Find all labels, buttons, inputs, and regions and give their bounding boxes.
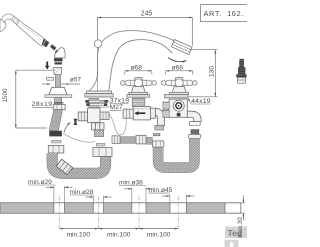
holder escutcheon xyxy=(49,87,67,95)
mid hose chain: nut xyxy=(112,136,120,144)
svg-text:ø68: ø68 xyxy=(131,65,143,72)
spout base flange xyxy=(87,91,112,94)
small stud xyxy=(74,119,76,125)
svg-text:130: 130 xyxy=(208,66,215,77)
U-hose right nut xyxy=(93,148,112,157)
spout shank below deck xyxy=(89,98,99,108)
ART box xyxy=(201,5,261,22)
spout tip xyxy=(171,40,192,55)
insert arrow xyxy=(45,61,50,69)
dimension max.30 xyxy=(225,196,245,221)
handshower hose below deck xyxy=(49,111,63,131)
valve 2 tail nipple xyxy=(191,130,199,135)
washer on U leg xyxy=(154,134,160,136)
bottom deck band xyxy=(0,203,241,213)
holder threaded column xyxy=(56,75,61,88)
valve 2 elbow xyxy=(187,111,201,121)
right edge cartridge xyxy=(236,59,246,83)
holder shank below deck xyxy=(55,97,62,104)
hose break slashes xyxy=(50,44,56,50)
dimension ø57 xyxy=(42,83,80,85)
spout below-deck body xyxy=(78,108,109,130)
hose ferrule below deck xyxy=(49,131,62,137)
washer xyxy=(52,140,62,143)
hand shower handle xyxy=(17,21,45,46)
dimension 245 xyxy=(98,18,193,47)
valve 1 elbow xyxy=(155,108,164,125)
svg-text:245: 245 xyxy=(141,10,153,17)
S-curve leader spout to valve1 xyxy=(110,115,127,135)
dimension 130 xyxy=(189,50,218,97)
corner fitting on U-hose xyxy=(56,159,73,175)
diverter dial xyxy=(173,100,184,111)
mid hose chain: hex xyxy=(136,135,146,144)
spout outlet circle xyxy=(94,40,102,48)
hole centerlines xyxy=(59,197,178,229)
diverter stud xyxy=(177,113,181,117)
valve 2 escutcheon xyxy=(170,92,189,94)
hose ferrule xyxy=(42,38,50,47)
flow arrow in valve1 body xyxy=(134,111,145,115)
hole edge extension lines xyxy=(54,186,186,203)
ribbed ring xyxy=(54,58,63,61)
S-curve leader hose to washer xyxy=(63,134,96,143)
left U-hose xyxy=(52,154,105,174)
holder side pin xyxy=(47,77,54,80)
valve 1 handle xyxy=(121,78,157,87)
min.100 dimensions xyxy=(59,228,178,230)
hand shower neck xyxy=(2,14,14,23)
svg-text:ø68: ø68 xyxy=(172,65,184,72)
valve 2 tail nut xyxy=(189,134,201,138)
shower holder cup xyxy=(54,67,62,74)
spout centerline xyxy=(97,40,99,91)
valve 1 skirt xyxy=(131,87,145,93)
hand shower head xyxy=(0,19,6,31)
svg-text:min.100: min.100 xyxy=(147,231,171,238)
svg-text:min.100: min.100 xyxy=(67,231,91,238)
valve 1 shank xyxy=(132,98,145,106)
hose end piece above holder xyxy=(55,48,66,58)
dimension 1500 xyxy=(16,70,56,128)
washer below spout xyxy=(96,143,105,146)
hand shower collar xyxy=(12,16,20,25)
valve 2 handle xyxy=(161,78,197,87)
compression nut on U leg xyxy=(152,141,163,147)
svg-text:1500: 1500 xyxy=(2,88,9,103)
valve 2 skirt xyxy=(172,87,186,93)
svg-text:min.100: min.100 xyxy=(107,231,131,238)
dimension ø68 valve1 xyxy=(125,71,152,75)
swivel arrow xyxy=(168,58,187,62)
holder nut xyxy=(53,105,65,110)
valve 1 escutcheon xyxy=(129,92,148,94)
svg-text:max.30: max.30 xyxy=(237,217,244,238)
mid hose chain: braided segment 2 xyxy=(146,137,152,144)
right U-hose xyxy=(158,139,194,168)
watermark xyxy=(225,227,248,247)
spout body xyxy=(89,31,176,91)
valve 1 body xyxy=(123,107,155,120)
valve 2 dimension ø68 xyxy=(166,71,193,75)
svg-text:ø57: ø57 xyxy=(70,77,82,84)
leader arrow to spout port xyxy=(64,123,71,133)
valve 2 diverter body xyxy=(163,99,187,117)
nut below washer xyxy=(48,145,64,153)
mid hose chain: braided segment xyxy=(121,137,136,144)
spout tail nipple xyxy=(94,130,103,137)
svg-text:ART. 162.: ART. 162. xyxy=(204,9,244,18)
